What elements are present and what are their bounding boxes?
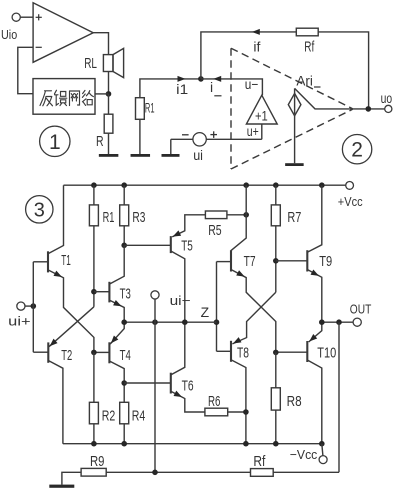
node R3/T3 collector/T5 base [121, 243, 127, 249]
wire bottom feedback line [106, 471, 250, 473]
svg-text:+Vcc: +Vcc [338, 194, 363, 209]
terminal -Vcc [322, 444, 323, 456]
circled number 1 [40, 126, 70, 156]
resistor R3 [123, 185, 125, 205]
wire T7/T8 base column (Z) [216, 262, 218, 352]
svg-text:T4: T4 [120, 347, 131, 364]
svg-text:−Vcc: −Vcc [290, 447, 318, 462]
svg-text:T3: T3 [120, 285, 131, 302]
wire OUT line [322, 321, 353, 323]
node rail R4 [121, 441, 127, 447]
transistor T4 [108, 342, 110, 363]
node rail R5 [243, 182, 249, 188]
wire R9 to ground [62, 472, 81, 484]
wire Uio to op-amp + input [20, 16, 33, 18]
transistor T1 [47, 251, 49, 272]
svg-text:OUT: OUT [350, 301, 372, 316]
speaker RL [103, 55, 113, 72]
wire buffer to ui source [261, 124, 263, 139]
feedback network box [33, 79, 95, 115]
terminal Uio [12, 13, 20, 21]
wire R5 right to column [227, 214, 246, 216]
svg-text:R6: R6 [208, 393, 221, 410]
ground bottom left [49, 485, 74, 488]
transistor T9 [306, 250, 308, 271]
transistor T7 [230, 250, 232, 271]
node rail T10 collector [319, 441, 325, 447]
dashed op-amp model boundary [230, 48, 232, 169]
ground below dependent source [285, 163, 304, 166]
wire R7 bottom to T9 base node [275, 226, 277, 292]
wire ui- vertical to feedback junction [154, 299, 156, 472]
node T3 base / T2 emitter [91, 289, 97, 295]
node inverting input junction [198, 76, 204, 82]
terminal +Vcc [346, 182, 354, 190]
wire from feedback network to node [95, 93, 109, 95]
svg-text:Uio: Uio [1, 27, 17, 42]
terminal ui+ [17, 302, 25, 310]
svg-text:R9: R9 [90, 453, 105, 470]
svg-text:Rf: Rf [304, 39, 315, 56]
transistor T5 [170, 236, 172, 253]
resistor R1 [93, 185, 95, 205]
resistor R [104, 114, 113, 133]
node T4 base / T1 emitter [91, 350, 97, 356]
svg-text:ui: ui [193, 147, 203, 163]
node rail R3 [121, 182, 127, 188]
node rail R1 [91, 182, 97, 188]
wire op-amp output [93, 33, 108, 55]
ground below ui [162, 154, 180, 157]
svg-text:R8: R8 [287, 393, 302, 410]
node rail T9 [319, 182, 325, 188]
svg-text:T10: T10 [317, 345, 336, 362]
source ui (signal source) [206, 138, 261, 140]
svg-text:T9: T9 [319, 253, 332, 270]
wire node to resistor R [108, 94, 110, 114]
resistor R4 [120, 402, 129, 424]
svg-text:T1: T1 [61, 252, 71, 269]
wire i_ branch [201, 79, 263, 95]
resistor R7 [275, 185, 277, 205]
node Z left (T3/T4 emitters) [121, 319, 127, 325]
wire R1 bottom to ground [139, 119, 141, 155]
node ui+ junction [31, 303, 37, 309]
resistor Rf [251, 469, 274, 477]
svg-text:R7: R7 [287, 209, 301, 226]
arrow i_ current [213, 76, 221, 82]
resistor Rf (model) [296, 28, 318, 36]
node Z junction [214, 319, 220, 325]
wire R3 bottom [123, 226, 125, 246]
resistor R5 [205, 211, 227, 219]
svg-text:R1: R1 [145, 100, 155, 116]
svg-text:1: 1 [49, 131, 61, 154]
node rail R7 [273, 182, 279, 188]
wire ui to ground [170, 139, 172, 155]
circled number 2 [342, 135, 371, 164]
circled number 3 [26, 196, 53, 223]
node T9 base / T8 emitter [273, 258, 279, 264]
svg-text:R: R [96, 133, 104, 150]
svg-text:+1: +1 [255, 108, 268, 124]
transistor T6 [170, 373, 172, 394]
svg-text:R5: R5 [208, 222, 221, 239]
wire R to ground [108, 133, 110, 155]
node R9/ui- junction [152, 470, 158, 476]
transistor T10 [306, 341, 308, 362]
resistor R9 [81, 468, 106, 476]
svg-text:T6: T6 [182, 377, 194, 394]
svg-text:RL: RL [84, 55, 97, 72]
ground below R [99, 154, 119, 157]
wire Z horizontal line [124, 321, 216, 323]
svg-text:Ari: Ari [296, 73, 313, 89]
transistor T3 [108, 282, 110, 303]
svg-text:u−: u− [245, 76, 258, 92]
buffer +1 (unity follower) [246, 95, 277, 124]
wire Rf vertical [338, 322, 340, 472]
node rail R8 [273, 441, 279, 447]
transistor T2 [47, 342, 49, 362]
wire T7 collector column [231, 185, 246, 250]
node R6/T8 collector [243, 409, 249, 415]
node T6 base junction [121, 380, 127, 386]
svg-text:uo: uo [381, 90, 393, 106]
wire +Vcc rail [64, 184, 346, 186]
svg-text:T7: T7 [244, 253, 256, 270]
terminal OUT [353, 318, 361, 326]
arrow if current [252, 29, 260, 35]
op-amp U1 [33, 3, 93, 63]
node T5/T6 collectors [182, 319, 188, 325]
resistor R2 [93, 352, 95, 402]
node rail R2 [91, 441, 97, 447]
resistor R6 [205, 408, 228, 416]
svg-text:R2: R2 [102, 408, 116, 425]
wire -Vcc rail [63, 443, 322, 445]
wire node to T5 base [124, 244, 171, 246]
wire feedback loop top [201, 32, 369, 109]
node rail T8 collector [243, 441, 249, 447]
node output junction [366, 106, 372, 112]
node T10 base / T7 emitter [273, 350, 279, 356]
svg-text:R1: R1 [103, 209, 115, 226]
wire ui+ vertical (T1/T2 bases) [32, 262, 34, 352]
svg-text:T8: T8 [237, 345, 249, 362]
arrow i1 current [178, 76, 186, 82]
wire R1 bottom to T3 base node [93, 226, 95, 307]
ground below R1 [131, 154, 151, 157]
svg-text:T2: T2 [61, 347, 72, 364]
svg-text:R4: R4 [132, 408, 146, 425]
svg-text:i: i [210, 79, 213, 95]
svg-text:Rf: Rf [253, 453, 266, 470]
wire dependent source to output [295, 88, 385, 109]
svg-text:R3: R3 [132, 209, 145, 226]
terminal uo [385, 105, 392, 112]
wire op-amp inverting input to feedback network [18, 47, 33, 93]
wire R1 top to i1 line [140, 79, 201, 98]
terminal ui- [151, 291, 159, 299]
svg-text:2: 2 [351, 139, 363, 162]
dependent source Ari (diamond) [294, 88, 296, 163]
svg-text:ui+: ui+ [8, 313, 30, 328]
resistor R8 [275, 352, 277, 387]
node speaker/feedback/R junction [106, 91, 112, 97]
transistor T8 [230, 341, 232, 362]
svg-text:3: 3 [34, 200, 45, 222]
node R5/T7 collector column [243, 212, 249, 218]
wire speaker to node [108, 72, 110, 94]
label feedback-network (Chinese) [40, 90, 93, 106]
resistor R1 (input model) [136, 98, 145, 120]
node Rf feedback tap [336, 319, 342, 325]
svg-text:T5: T5 [181, 237, 193, 254]
svg-text:Z: Z [201, 304, 210, 320]
node T9/T10 emitters [319, 319, 325, 325]
svg-text:ui−: ui− [170, 293, 191, 308]
node ui- on Z line [152, 319, 158, 325]
svg-text:u+: u+ [247, 123, 259, 139]
wire R6 right [228, 411, 246, 413]
svg-text:i1: i1 [176, 81, 188, 97]
svg-text:if: if [253, 39, 260, 55]
